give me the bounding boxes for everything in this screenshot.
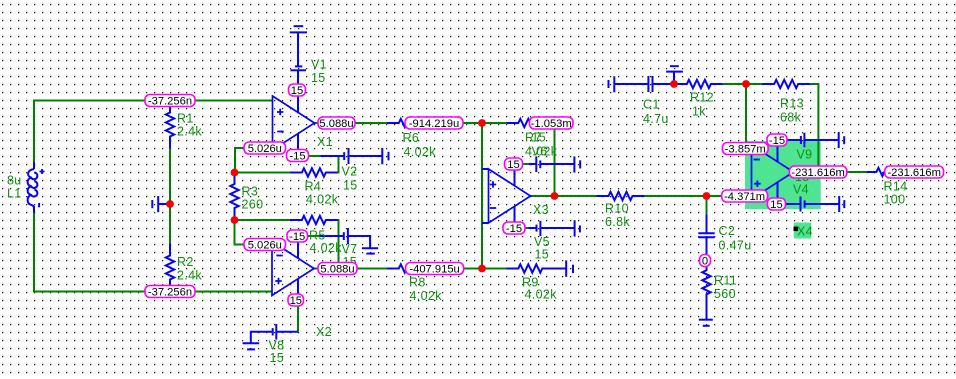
- svg-text:V2: V2: [342, 165, 358, 179]
- wire R3 bottom node to R5: [235, 219, 290, 221]
- wire R1 to ground junction to R2: [169, 149, 171, 244]
- resistor R3: [230, 173, 238, 221]
- node A X3 + path: [478, 119, 486, 127]
- svg-text:15: 15: [770, 199, 782, 211]
- resistor R2: [166, 244, 174, 292]
- svg-text:260: 260: [242, 198, 264, 212]
- svg-text:V9: V9: [797, 148, 813, 162]
- wire 15 label to V6: [523, 163, 529, 165]
- node label -407.915u: [406, 263, 464, 276]
- wire R13 right down to X4 output node: [810, 84, 818, 166]
- node label -37.256n bottom: [145, 286, 195, 299]
- wire R8 label to node B: [464, 268, 482, 270]
- wire R3 bottom node to X2 - input label: [235, 220, 245, 245]
- X4 selection origin marker: [794, 227, 799, 232]
- svg-text:2.4k: 2.4k: [177, 125, 202, 139]
- resistor R12: [674, 80, 722, 88]
- svg-text:15: 15: [311, 71, 326, 85]
- node label -4.371m: [722, 190, 768, 203]
- svg-text:V4: V4: [793, 183, 809, 197]
- battery V7: [320, 228, 370, 248]
- wire X2 output label to R8: [357, 268, 387, 270]
- op-amp X4: [752, 145, 794, 199]
- node label -231.616m X4 out: [789, 166, 847, 179]
- battery V2: [320, 148, 382, 164]
- svg-text:V6: V6: [532, 145, 548, 159]
- wire -15 label to V5: [525, 227, 529, 229]
- node X3 output: [551, 192, 559, 200]
- resistor R6: [387, 119, 435, 127]
- svg-text:R13: R13: [780, 97, 804, 111]
- svg-text:-15: -15: [506, 223, 522, 235]
- battery V1: [290, 32, 306, 84]
- svg-text:-3.857m: -3.857m: [725, 144, 766, 156]
- wire node C to -4.371m label: [707, 195, 722, 197]
- node label 5.088u X2 out: [318, 263, 357, 276]
- svg-text:-37.256n: -37.256n: [148, 96, 192, 108]
- svg-text:C2: C2: [719, 224, 736, 238]
- resistor R11: [702, 267, 710, 320]
- battery V5: [529, 221, 575, 236]
- X4 name highlight: [794, 223, 812, 239]
- resistor R13: [762, 80, 810, 88]
- resistor R8: [387, 264, 435, 272]
- ground right of V2: [382, 148, 388, 164]
- wire node B to R9: [482, 268, 506, 270]
- resistor R14: [867, 168, 909, 176]
- svg-text:8u: 8u: [7, 174, 22, 188]
- svg-text:-15: -15: [289, 151, 305, 163]
- node R12-R13 junction: [742, 80, 750, 88]
- op-amp X4 selection highlight: [745, 141, 821, 209]
- node label 15 X3 top: [505, 158, 523, 171]
- svg-text:-1.053m: -1.053m: [531, 118, 572, 130]
- svg-text:5.026u: 5.026u: [248, 240, 282, 252]
- svg-text:R6: R6: [403, 131, 420, 145]
- svg-text:5.026u: 5.026u: [248, 143, 282, 155]
- wire R6 label to node A: [463, 122, 482, 124]
- svg-text:15: 15: [532, 131, 547, 145]
- svg-text:V7: V7: [342, 242, 358, 256]
- svg-text:1k: 1k: [692, 105, 706, 119]
- svg-text:R3: R3: [242, 185, 259, 199]
- svg-text:5.088u: 5.088u: [319, 118, 353, 130]
- wire R5 right down to X2 output node: [337, 220, 340, 263]
- svg-text:X3: X3: [533, 203, 549, 217]
- ground at R1/R2 junction: [152, 196, 170, 212]
- node label 0: [700, 255, 711, 268]
- node label -914.219u: [405, 117, 463, 130]
- node label 15 V1: [289, 84, 306, 97]
- capacitor C1: [648, 76, 674, 92]
- wire node A to R7: [482, 122, 506, 124]
- node R3 bottom: [231, 216, 239, 224]
- wire R3 top node to R4: [235, 172, 290, 174]
- resistor R4: [290, 168, 338, 176]
- wire X1 - input to R3 top node: [235, 148, 244, 173]
- wire node D to R13: [746, 83, 762, 85]
- node R3 top: [231, 169, 239, 177]
- node R10-C2-X4 junction: [703, 192, 711, 200]
- svg-text:X1: X1: [317, 135, 333, 149]
- svg-text:15: 15: [270, 351, 285, 365]
- node label -15 X1: [287, 150, 309, 163]
- node label -1.053m: [530, 117, 574, 130]
- ground right of V5: [575, 220, 580, 236]
- battery V3 unconnected left of C1: [609, 76, 649, 92]
- svg-text:0.47u: 0.47u: [719, 239, 752, 253]
- svg-text:-914.219u: -914.219u: [409, 118, 459, 130]
- svg-text:15: 15: [343, 179, 358, 193]
- svg-text:5.088u: 5.088u: [320, 264, 354, 276]
- battery V4: [786, 197, 840, 212]
- svg-text:68k: 68k: [780, 111, 802, 125]
- wire top-left row to X1 + input: [34, 101, 273, 163]
- wire -15 label to V2: [309, 155, 321, 157]
- op-amp X2: [272, 242, 314, 296]
- ground below R11: [699, 320, 713, 326]
- ground below V7: [362, 248, 378, 253]
- svg-text:0: 0: [702, 256, 708, 268]
- battery V9: [787, 133, 839, 147]
- wire R10 to node C: [645, 195, 707, 197]
- wire left column lower and bottom row to X2 + input: [34, 213, 272, 292]
- svg-text:X2: X2: [316, 325, 332, 339]
- ground right of V9: [839, 132, 845, 148]
- wire -1.053m label down to X3 output: [554, 129, 556, 196]
- svg-text:-231.616m: -231.616m: [791, 167, 845, 179]
- svg-text:4.02k: 4.02k: [525, 288, 558, 302]
- resistor R7: [506, 119, 554, 127]
- wire R4 right to V2 rail: [337, 157, 340, 173]
- svg-text:4.7u: 4.7u: [643, 112, 669, 126]
- node label -15 X4: [767, 134, 787, 147]
- svg-text:15: 15: [290, 295, 302, 307]
- wire X4 apex to output label: [789, 171, 793, 173]
- svg-text:6.8k: 6.8k: [605, 215, 630, 229]
- wire X3 input column: [481, 123, 483, 269]
- node C1-R12 ground junction: [670, 80, 678, 88]
- inductor L1: [28, 162, 45, 213]
- svg-text:C1: C1: [643, 98, 660, 112]
- wire X1 output to label: [315, 122, 319, 124]
- svg-text:4.02k: 4.02k: [404, 145, 437, 159]
- battery V6: [528, 156, 574, 172]
- svg-text:-15: -15: [769, 135, 785, 147]
- svg-text:100: 100: [884, 193, 906, 207]
- wire X4 output label to R14: [847, 171, 867, 173]
- svg-text:R10: R10: [605, 202, 629, 216]
- wire node D down to -3.857m label: [745, 84, 747, 143]
- ground right of V4: [839, 196, 844, 212]
- svg-text:-4.371m: -4.371m: [724, 191, 765, 203]
- node label -37.256n top: [145, 95, 195, 108]
- svg-text:-407.915u: -407.915u: [409, 264, 459, 276]
- wire 15 label to V8: [297, 306, 299, 332]
- svg-text:-231.616m: -231.616m: [887, 167, 941, 179]
- svg-text:V1: V1: [311, 58, 327, 72]
- svg-text:R2: R2: [177, 255, 194, 269]
- node label -15 X2 top: [287, 230, 308, 243]
- wire node C down to C2: [706, 196, 708, 214]
- svg-text:R4: R4: [305, 180, 322, 194]
- svg-text:-37.256n: -37.256n: [148, 287, 192, 299]
- node label -3.857m: [722, 143, 768, 156]
- svg-text:R12: R12: [690, 91, 714, 105]
- resistor R1: [166, 101, 174, 149]
- svg-text:4.02k: 4.02k: [410, 289, 443, 303]
- svg-text:2.4k: 2.4k: [177, 269, 202, 283]
- svg-text:4.02k: 4.02k: [306, 193, 339, 207]
- node B X3 - path: [478, 265, 486, 273]
- svg-text:X4: X4: [797, 225, 813, 239]
- capacitor C2: [698, 214, 714, 254]
- ground above C1 junction: [666, 66, 683, 84]
- node label 5.026u X1: [244, 142, 286, 155]
- svg-text:15: 15: [291, 85, 303, 97]
- wire X3 output to R10: [531, 195, 597, 197]
- op-amp X1: [273, 96, 315, 150]
- svg-text:4.02k: 4.02k: [310, 241, 343, 255]
- ground right of R9: [566, 260, 573, 276]
- resistor R9: [506, 264, 566, 272]
- node label 15 X4: [768, 198, 786, 211]
- svg-text:R14: R14: [884, 180, 908, 194]
- wire X2 output to label: [314, 268, 318, 270]
- wire -15 label to V7: [308, 235, 321, 237]
- svg-text:R8: R8: [409, 276, 426, 290]
- svg-text:-15: -15: [289, 231, 305, 243]
- node label -231.616m right: [885, 166, 944, 179]
- wire X1 output label to R6: [355, 122, 387, 124]
- svg-text:15: 15: [535, 248, 550, 262]
- battery V8: [251, 324, 298, 343]
- op-amp X3: [482, 169, 531, 223]
- resistor R5: [290, 216, 338, 224]
- svg-text:R11: R11: [714, 274, 737, 288]
- wire R12 to node D: [722, 83, 746, 85]
- node R1-ground junction: [166, 200, 174, 208]
- ground below V8: [243, 343, 260, 349]
- svg-text:L1: L1: [7, 187, 22, 201]
- resistor R10: [597, 192, 645, 200]
- node label 15 X2 bottom: [288, 294, 304, 307]
- svg-text:15: 15: [507, 159, 519, 171]
- node label -15 X3 bottom: [503, 222, 525, 235]
- node label 5.026u X2: [244, 239, 286, 252]
- svg-text:560: 560: [714, 287, 736, 301]
- node label 5.088u X1 out: [318, 117, 355, 130]
- svg-text:R1: R1: [177, 112, 194, 126]
- ground above V1: [290, 26, 307, 32]
- ground right of V6: [574, 156, 580, 172]
